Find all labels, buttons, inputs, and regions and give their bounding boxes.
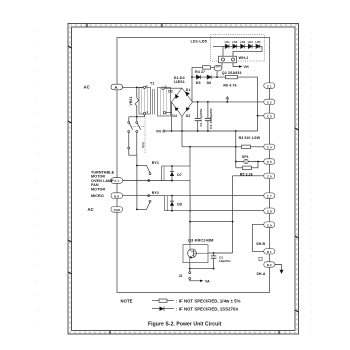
wire coil feed from C-4 line (189, 147, 191, 166)
left load labels (88, 171, 115, 212)
svg-text:LD5: LD5 (255, 41, 261, 44)
frame tick marks (68, 24, 299, 335)
wire VN bus (165, 130, 258, 132)
svg-text:B 2: B 2 (267, 263, 272, 267)
connector C-7 (264, 193, 275, 198)
svg-text:LD1-LD5: LD1-LD5 (191, 39, 207, 43)
connector A-1 (111, 178, 123, 184)
LED LD4 (248, 44, 252, 48)
diode D6 (207, 75, 211, 79)
wire bridge left down to VN (171, 113, 173, 131)
wire LED feed to connector pin1 (222, 46, 224, 56)
wire Q3 collector (189, 222, 191, 245)
LED LD2 (233, 44, 237, 48)
LED LD3 (241, 44, 245, 48)
connector C-1 (264, 83, 275, 88)
wire C-4 line (182, 146, 264, 148)
ground (280, 270, 284, 274)
switch S2 (136, 117, 138, 122)
svg-text:D8: D8 (177, 203, 182, 207)
connector N-O (111, 193, 123, 199)
svg-text:C 5: C 5 (267, 160, 272, 164)
transistor Q2 (214, 65, 222, 71)
svg-text:LD2: LD2 (232, 41, 238, 44)
diode D2 (186, 107, 190, 111)
svg-text:D1: D1 (186, 88, 191, 92)
diode D5 (196, 75, 200, 79)
T1 terminals (143, 86, 145, 88)
wire secondary top to bridge (164, 87, 182, 89)
wire stub to C-3 (258, 115, 264, 117)
right edge connectors (264, 83, 275, 267)
capacitor C1 (197, 102, 199, 119)
LED LD1 (225, 44, 229, 48)
wire right branch down (257, 77, 259, 131)
connector C-9 (264, 222, 275, 227)
svg-text:T1: T1 (150, 81, 155, 85)
switch S1 (128, 117, 130, 122)
svg-text:D7: D7 (177, 173, 182, 177)
jumper J2 (189, 269, 191, 272)
svg-text:AC: AC (84, 85, 90, 90)
svg-text:Q2 2SA933: Q2 2SA933 (222, 71, 242, 75)
wire down to relay column (136, 155, 138, 209)
svg-text:AC: AC (88, 207, 94, 212)
capacitor C3 (213, 253, 215, 256)
wire contact feed (137, 165, 147, 167)
svg-text:C 9: C 9 (267, 223, 272, 227)
relay RY2 coil box (165, 196, 190, 211)
LED labels (225, 41, 261, 44)
wire NO line (123, 195, 165, 197)
svg-text:B 1: B 1 (267, 250, 272, 254)
connector A (111, 84, 123, 90)
relay RY2 contact (147, 203, 150, 210)
rectifier D1-D4 label (174, 76, 185, 84)
wire bridge bottom to C-4 line (181, 116, 183, 147)
wire LED return (233, 46, 262, 56)
node test point arrow (226, 98, 228, 102)
page frame (68, 24, 299, 335)
svg-text:C 4: C 4 (267, 146, 272, 150)
svg-text:R3 910 1/2W: R3 910 1/2W (239, 136, 261, 140)
wire Q3 emitter (189, 263, 191, 269)
connector B-1 (264, 249, 275, 254)
wire Q3 base line (209, 252, 233, 254)
svg-text:D2: D2 (186, 114, 191, 118)
diode D3 (175, 94, 179, 99)
relay RY1 coil box (162, 166, 191, 181)
svg-text:C 7: C 7 (267, 194, 272, 198)
svg-text:Q3 KRC243M: Q3 KRC243M (188, 238, 213, 243)
wire relay bottoms to Q3 node (190, 211, 233, 222)
resistor R3 (242, 145, 251, 148)
svg-text:: IF NOT SPECIFIED, 1/4w ± 5%: : IF NOT SPECIFIED, 1/4w ± 5% (176, 298, 241, 303)
svg-text:MICRO: MICRO (91, 194, 104, 198)
wire RY2 bottom to C-8 (190, 210, 264, 212)
jumper pad (259, 257, 262, 260)
wire contact feed (137, 208, 147, 210)
svg-text:D4: D4 (172, 114, 177, 118)
svg-text:C 2: C 2 (267, 101, 272, 105)
svg-text:D5: D5 (196, 81, 201, 85)
display board dashed box (211, 35, 265, 62)
svg-text:C2 1000µ/25v: C2 1000µ/25v (209, 108, 213, 129)
svg-text:SH-A: SH-A (257, 272, 266, 276)
circuit board outline box (117, 38, 270, 293)
wire B2 ground (275, 265, 282, 270)
connector C-6 (264, 173, 275, 178)
svg-text:WH-1: WH-1 (239, 56, 249, 60)
wire VH output (233, 63, 240, 67)
T1 primary winding (139, 88, 151, 115)
connector C-5 (264, 159, 275, 164)
svg-text:VN: VN (156, 130, 161, 134)
buzzer SP1 (244, 159, 248, 163)
svg-text:11ES1: 11ES1 (174, 80, 185, 84)
connector WH-1 (219, 56, 237, 63)
svg-text:10µ/25v: 10µ/25v (219, 259, 231, 263)
mechanical linkage dotted (131, 112, 146, 154)
svg-text:SP1: SP1 (242, 155, 249, 159)
T1 secondary winding (158, 88, 171, 117)
svg-text:R4 27: R4 27 (195, 70, 205, 74)
svg-text:NOTE: NOTE (121, 299, 133, 304)
wire A to T1 primary (123, 86, 144, 88)
left edge connectors (111, 178, 123, 213)
capacitor C2 (207, 102, 209, 119)
diode legend symbol (152, 308, 174, 310)
wire left branch (191, 67, 193, 102)
connector C-3 (264, 113, 275, 118)
diode D1 (185, 92, 190, 97)
svg-text:SH-B: SH-B (256, 242, 265, 246)
svg-text:R6 4.7k: R6 4.7k (223, 83, 236, 87)
svg-text:C1 0.1µ/50v: C1 0.1µ/50v (199, 108, 203, 126)
resistor R5 loop (236, 162, 258, 168)
LED LD5 (256, 44, 260, 48)
svg-text:VA: VA (205, 279, 210, 283)
NOTE legend (121, 298, 241, 311)
wire A1 line (123, 180, 172, 182)
svg-text:D6: D6 (207, 81, 212, 85)
svg-text:A 1: A 1 (114, 179, 119, 183)
svg-text:D3: D3 (168, 89, 173, 93)
svg-text:COM: COM (114, 209, 120, 212)
wire C-6 control line (233, 175, 264, 177)
wire Q2 base (192, 66, 214, 68)
connector B-2 (264, 262, 275, 267)
wire mid vertical (235, 131, 237, 168)
resistor R6 (226, 75, 238, 78)
wire primary bottom (144, 115, 146, 117)
svg-text:N O: N O (114, 194, 120, 198)
svg-text:LD4: LD4 (248, 41, 254, 44)
svg-text:Figure S-2. Power Unit Circuit: Figure S-2. Power Unit Circuit (148, 322, 222, 328)
svg-text:C 6: C 6 (267, 175, 272, 179)
wire SP1 line to C-5 (236, 161, 264, 163)
svg-text:A: A (115, 85, 118, 90)
connector C-2 (264, 99, 275, 104)
wire C-9 SH-B loop (252, 225, 264, 252)
wire main positive bus (193, 101, 265, 103)
wire LED anode line (213, 45, 262, 47)
connector C-4 (264, 144, 275, 149)
wire coil bottoms (189, 181, 191, 211)
wire secondary bottom to bridge left (166, 102, 172, 113)
svg-text:RY2: RY2 (152, 191, 159, 195)
T1 core (151, 89, 153, 115)
svg-text:LD3: LD3 (240, 41, 246, 44)
diode D4 (175, 108, 179, 112)
bridge rectifier diamond (172, 88, 193, 116)
svg-text:VRS1: VRS1 (129, 96, 133, 105)
wire Q2 collector (216, 72, 218, 78)
svg-text:C 1: C 1 (267, 84, 272, 88)
svg-text:RY1: RY1 (152, 161, 159, 165)
svg-text:MOTOR: MOTOR (91, 187, 105, 191)
resistor R4 (203, 66, 211, 69)
svg-text:VH: VH (244, 65, 249, 69)
svg-text:C 8: C 8 (267, 209, 272, 213)
diode D7 (171, 166, 173, 181)
scan speckle columns (36, 30, 312, 334)
svg-text:C 3: C 3 (267, 115, 272, 119)
svg-text:U(1): U(1) (141, 142, 145, 147)
connector C-8 (264, 208, 275, 213)
wire D5 D6 line (192, 76, 258, 78)
svg-text:LD1: LD1 (225, 41, 231, 44)
resistor legend symbol (152, 300, 174, 302)
svg-text:: IF NOT SPECIFIED, 1SS270A: : IF NOT SPECIFIED, 1SS270A (176, 306, 239, 311)
wire VA output (190, 279, 201, 280)
relay RY1 contact (147, 166, 150, 173)
svg-text:J2: J2 (179, 274, 183, 278)
varistor VRS1 (135, 87, 138, 116)
wire RY2 top to C-7 (190, 195, 264, 197)
connector COM (111, 207, 123, 213)
diode D8 (171, 196, 173, 211)
